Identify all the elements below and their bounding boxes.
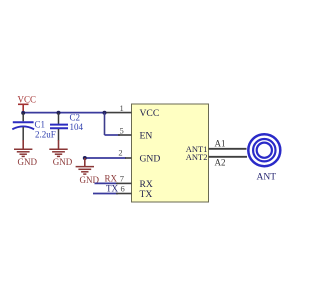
- wire GND net to pin 2: [85, 157, 126, 159]
- capacitor C1: [12, 113, 55, 141]
- wire EN branch horizontal: [105, 134, 121, 136]
- node junction at VCC lead: [21, 111, 25, 115]
- ground (pin 2 net): [76, 158, 100, 185]
- svg-text:ANT2: ANT2: [186, 152, 208, 162]
- svg-text:GND: GND: [53, 157, 73, 167]
- svg-text:RX: RX: [105, 174, 118, 184]
- IC U1 body: [132, 104, 209, 202]
- svg-text:C1: C1: [35, 120, 46, 130]
- antenna ANT outer ring: [248, 134, 280, 166]
- pin A1 stub: [209, 148, 247, 150]
- svg-text:1: 1: [120, 103, 124, 113]
- svg-text:5: 5: [120, 125, 124, 135]
- svg-text:ANT: ANT: [257, 172, 277, 182]
- pin 7 stub: [116, 182, 132, 184]
- ground (C2): [49, 140, 72, 167]
- svg-text:TX: TX: [106, 183, 118, 193]
- svg-text:7: 7: [120, 174, 124, 184]
- svg-text:VCC: VCC: [18, 95, 37, 105]
- power port VCC: [18, 95, 37, 113]
- ground (C1): [14, 140, 37, 167]
- svg-text:104: 104: [70, 122, 84, 132]
- pin 1 stub: [105, 112, 132, 114]
- wire EN branch vertical: [104, 113, 106, 135]
- wire RX: [95, 182, 119, 184]
- pin 2 stub: [125, 157, 132, 159]
- capacitor C2: [50, 113, 84, 141]
- svg-text:2.2uF: 2.2uF: [35, 130, 56, 140]
- wire TX: [93, 193, 118, 195]
- node junction at EN branch: [103, 111, 107, 115]
- pin 6 stub: [116, 193, 132, 195]
- antenna ANT middle ring: [253, 139, 275, 161]
- node junction at C2: [57, 111, 61, 115]
- svg-text:A1: A1: [215, 138, 226, 148]
- wire VCC net (horizontal): [23, 112, 105, 114]
- pin 5 stub: [118, 134, 132, 136]
- svg-text:2: 2: [118, 148, 122, 158]
- node wire end at middle ground: [83, 156, 87, 160]
- svg-text:A2: A2: [215, 157, 226, 167]
- svg-text:GND: GND: [140, 154, 161, 165]
- svg-text:EN: EN: [140, 130, 153, 141]
- svg-text:6: 6: [121, 183, 125, 193]
- svg-text:TX: TX: [140, 189, 153, 200]
- svg-text:GND: GND: [18, 157, 38, 167]
- antenna ANT inner ring: [257, 143, 272, 158]
- svg-text:VCC: VCC: [140, 108, 160, 119]
- pin A2 stub: [209, 156, 248, 158]
